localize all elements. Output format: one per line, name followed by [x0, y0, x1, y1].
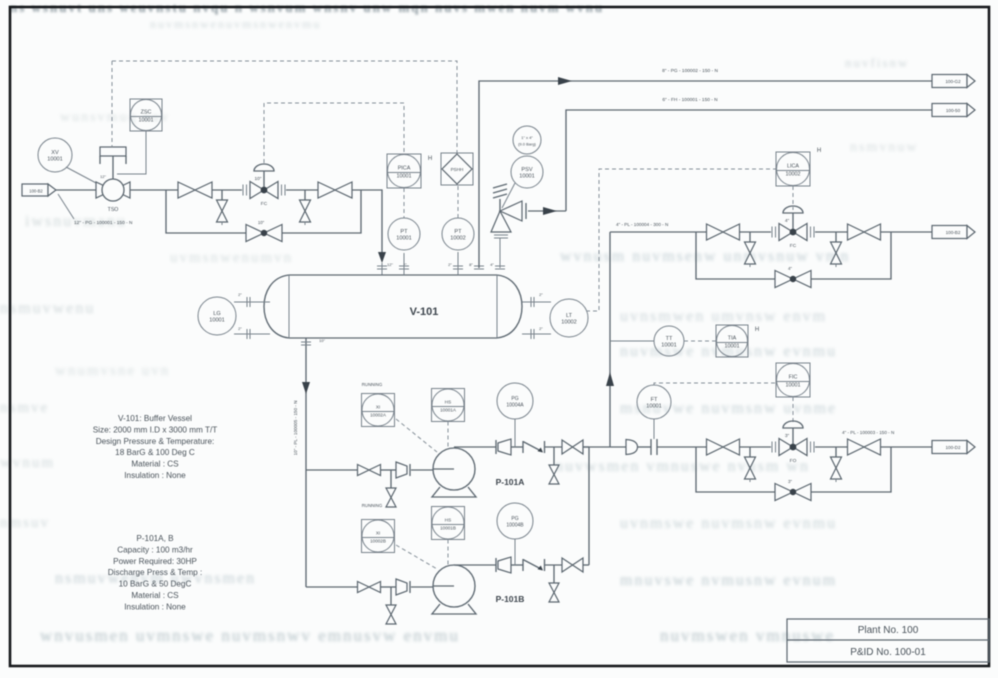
arrow PSV outlet: [543, 207, 557, 215]
svg-text:LT: LT: [566, 313, 573, 319]
svg-text:Power Required: 30HP: Power Required: 30HP: [113, 557, 197, 566]
wire 10" suction header: [305, 352, 307, 587]
svg-text:FIC: FIC: [789, 375, 798, 381]
nozzle LG lower 2": [234, 326, 270, 339]
svg-text:10001: 10001: [397, 174, 412, 180]
svg-text:Insulation : None: Insulation : None: [124, 471, 186, 480]
wire TT tap: [610, 340, 654, 342]
svg-text:10001A: 10001A: [440, 408, 457, 413]
valve gate LV upstream: [707, 224, 740, 240]
svg-text:10 BarG & 50 DegC: 10 BarG & 50 DegC: [119, 580, 192, 589]
valve gate FV upstream: [707, 439, 740, 455]
control valve FV 3" FO: [772, 421, 814, 464]
wire dashed FT-FIC: [654, 383, 776, 385]
svg-text:V-101: V-101: [410, 306, 439, 318]
svg-text:100-G2: 100-G2: [945, 79, 961, 84]
svg-text:10002B: 10002B: [370, 539, 386, 544]
control valve LV 4" FC: [772, 206, 814, 249]
instrument TIA 10001: [716, 325, 748, 357]
flow element FE orifice flanges: [651, 419, 657, 455]
svg-text:FO: FO: [790, 458, 797, 464]
wire pump B suction line: [306, 586, 433, 588]
svg-text:RUNNING: RUNNING: [362, 503, 383, 508]
svg-text:2": 2": [539, 326, 543, 331]
svg-text:4" - PL - 100003 - 150 - N: 4" - PL - 100003 - 150 - N: [842, 430, 894, 435]
svg-text:10001: 10001: [661, 343, 677, 349]
instrument LICA 10002: [776, 152, 810, 186]
wire pump B discharge: [454, 564, 589, 566]
svg-text:8" - PG - 100002 - 150 - N: 8" - PG - 100002 - 150 - N: [662, 68, 718, 74]
svg-text:PG: PG: [511, 516, 518, 522]
svg-text:PG: PG: [511, 396, 518, 402]
drain valve D1: [217, 190, 228, 225]
svg-text:FC: FC: [790, 243, 797, 249]
wire dashed XI-B to pump: [396, 545, 437, 569]
reducer pump A discharge: [496, 439, 511, 455]
nozzle LT lower 2": [522, 326, 551, 339]
instrument bubble PG 10004A: [497, 383, 533, 419]
check valve pump A: [523, 441, 545, 453]
svg-text:100-B2: 100-B2: [29, 189, 43, 194]
svg-text:H: H: [428, 156, 432, 162]
svg-text:TT: TT: [666, 336, 673, 342]
valve XV-10001 ball valve TSO: [96, 174, 130, 213]
nozzle N4 vapour 8": [469, 262, 484, 269]
label H alarm TIA: [755, 327, 759, 333]
node flag 100-B2 outlet: [932, 226, 975, 239]
node flag 100-50: [932, 104, 975, 117]
svg-text:Material : CS: Material : CS: [131, 591, 179, 600]
svg-text:10004A: 10004A: [506, 403, 524, 409]
svg-text:PICA: PICA: [398, 166, 411, 172]
drain pump A discharge: [549, 447, 559, 484]
wire PG-A tap: [514, 419, 516, 447]
valve gate pump A suction: [358, 465, 381, 476]
wire dashed HS-B to pump: [447, 540, 449, 566]
svg-text:3": 3": [788, 479, 792, 484]
valve gate V1 12" line: [178, 182, 212, 198]
wire dashed solenoid signal to actuator: [111, 61, 113, 147]
label RUNNING A: [362, 382, 383, 387]
valve gate pump B discharge: [562, 558, 583, 572]
svg-text:10001: 10001: [646, 404, 662, 410]
drain pump B suction: [386, 587, 396, 624]
wire pump B riser to manifold: [588, 447, 590, 565]
svg-text:4": 4": [490, 262, 494, 267]
reducer pump B discharge: [496, 557, 511, 573]
svg-text:Insulation : None: Insulation : None: [124, 602, 186, 611]
wire main line segment 1: [130, 189, 178, 191]
reducer pump B suction: [396, 579, 410, 595]
note V-101 data block: [93, 414, 218, 480]
arrow up on riser: [606, 372, 614, 386]
wire upper manifold segments: [610, 231, 932, 233]
svg-text:LG: LG: [213, 311, 220, 317]
svg-text:TSO: TSO: [108, 207, 119, 213]
svg-text:PSV: PSV: [521, 167, 532, 173]
svg-text:FC: FC: [261, 201, 268, 207]
leader PSV bubble to valve: [502, 183, 515, 208]
wire riser pump header to LV line: [609, 232, 611, 447]
wire inlet line to ball valve: [56, 189, 96, 191]
instrument ZSC 10001: [130, 99, 162, 131]
svg-text:12": 12": [387, 262, 393, 267]
svg-text:10001: 10001: [47, 157, 63, 163]
instrument bubble PSV size tag: [513, 126, 541, 154]
instrument PSHH 10001 switch: [441, 153, 473, 185]
svg-text:RUNNING: RUNNING: [362, 382, 383, 387]
svg-text:ZSC: ZSC: [141, 110, 152, 116]
drain valve upper-1: [745, 232, 756, 267]
svg-text:10001: 10001: [786, 383, 801, 389]
instrument bubble LT 10002: [550, 299, 588, 337]
svg-text:XI: XI: [376, 531, 380, 536]
wire dashed PICA to valve loop: [264, 103, 404, 163]
svg-text:10002: 10002: [450, 236, 466, 242]
svg-text:100-D2: 100-D2: [945, 445, 961, 450]
wire dashed XI-A to pump: [396, 419, 437, 452]
wire dashed TT-TIA: [684, 340, 716, 342]
svg-text:Discharge Press & Temp :: Discharge Press & Temp :: [108, 568, 203, 577]
svg-text:2": 2": [238, 292, 242, 297]
label H alarm LICA: [817, 148, 821, 154]
wire lower manifold segments: [583, 446, 932, 448]
svg-text:4" - PL - 100004 - 300 - N: 4" - PL - 100004 - 300 - N: [616, 222, 668, 227]
svg-text:4": 4": [785, 218, 790, 224]
svg-text:10001B: 10001B: [440, 526, 456, 531]
node flag 100-G2: [932, 75, 975, 88]
valve globe lower bypass 3": [775, 479, 811, 501]
wire bypass loop 10 inch: [166, 190, 361, 233]
nozzle flange 12 inch inlet: [377, 262, 407, 275]
check valve pump B: [523, 559, 545, 571]
valve globe upper bypass 4": [775, 266, 811, 288]
label 8"-PG-100002-150-N: [662, 68, 718, 74]
label P-101A: [496, 477, 525, 487]
label RUNNING B: [362, 503, 383, 508]
svg-text:P-101B: P-101B: [496, 594, 525, 604]
svg-text:LICA: LICA: [787, 164, 799, 170]
svg-text:Capacity : 100 m3/hr: Capacity : 100 m3/hr: [117, 545, 193, 554]
svg-text:10001: 10001: [209, 318, 225, 324]
label P-101B: [496, 594, 525, 604]
svg-text:H: H: [755, 327, 759, 333]
instrument switch HS 10001B: [432, 507, 465, 540]
leader XV to valve: [66, 167, 98, 184]
svg-text:XI: XI: [376, 405, 380, 410]
wire dashed interlock loop XV-PSHH: [112, 61, 457, 153]
svg-text:10001: 10001: [139, 118, 154, 124]
label V-101: [410, 306, 439, 318]
svg-text:Design Pressure & Temperature:: Design Pressure & Temperature:: [96, 437, 215, 446]
valve gate LV downstream: [848, 224, 881, 240]
svg-text:P-101A, B: P-101A, B: [136, 534, 174, 543]
svg-text:PT: PT: [400, 229, 408, 235]
svg-text:1" x 4": 1" x 4": [521, 135, 533, 140]
svg-text:10001: 10001: [396, 236, 412, 242]
wire ZSC connection: [117, 131, 146, 174]
vessel V-101 shell: [264, 275, 522, 338]
wire segment: [286, 189, 318, 191]
svg-text:PSHH: PSHH: [451, 167, 464, 172]
label 6"-FH-100001-150-N: [662, 97, 718, 103]
svg-text:(9.0 Barg): (9.0 Barg): [518, 142, 536, 147]
note P-101A/B data block: [108, 534, 203, 611]
instrument bubble XV 10001: [38, 138, 72, 172]
svg-text:10": 10": [254, 176, 261, 182]
valve globe bypass 10": [246, 220, 282, 242]
svg-text:10001: 10001: [519, 174, 535, 180]
label line 12"-PG-100001-150-N: [58, 194, 133, 226]
svg-text:10001: 10001: [725, 344, 740, 350]
instrument bubble TT 10001: [654, 326, 684, 356]
svg-text:HS: HS: [445, 400, 451, 405]
drain pump B discharge: [549, 565, 559, 602]
valve gate FV downstream: [848, 439, 881, 455]
wire dashed PT10002-PSHH: [457, 186, 459, 218]
svg-text:12" - PG - 100001 - 150 - N: 12" - PG - 100001 - 150 - N: [74, 220, 133, 226]
nozzle N2 PT-10001 2": [399, 253, 409, 275]
svg-text:100-B2: 100-B2: [946, 230, 961, 235]
drain valve upper-2: [831, 232, 842, 267]
pump P-101B: [432, 565, 476, 614]
svg-text:10004B: 10004B: [506, 523, 524, 529]
svg-text:2": 2": [238, 326, 242, 331]
svg-text:10" - PL - 100005 - 150 - N: 10" - PL - 100005 - 150 - N: [293, 401, 298, 456]
nozzle bottom outlet 10": [301, 338, 326, 352]
node inlet flag 100-B2: [22, 184, 56, 196]
instrument bubble FT 10001: [637, 385, 671, 419]
label 4"-PL-100003-150-N: [842, 430, 894, 435]
wire dashed PT10001-PICA: [403, 188, 405, 218]
svg-text:8": 8": [469, 262, 473, 267]
instrument bubble PT 10002: [442, 218, 474, 250]
svg-text:10002A: 10002A: [370, 413, 387, 418]
svg-text:Plant No. 100: Plant No. 100: [858, 625, 919, 636]
wire dashed FIC to FV: [792, 397, 794, 424]
arrow flow into vessel: [378, 252, 386, 263]
valve gate pump B suction: [358, 582, 381, 593]
svg-text:P&ID No. 100-01: P&ID No. 100-01: [850, 647, 926, 658]
instrument light XI 10002A: [362, 394, 395, 427]
drain valve lower-2: [831, 447, 842, 482]
instrument PICA 10001: [387, 154, 421, 188]
wire 8" PG-100002 line: [479, 81, 932, 268]
reducer pump A suction: [396, 462, 410, 478]
svg-text:PT: PT: [454, 229, 462, 235]
wire dashed HS-A to pump: [447, 422, 449, 449]
svg-text:H: H: [817, 148, 821, 154]
title block: [787, 619, 989, 662]
svg-text:6" - FH - 100001 - 150 - N: 6" - FH - 100001 - 150 - N: [662, 97, 718, 103]
svg-text:18 BarG & 100 Deg C: 18 BarG & 100 Deg C: [115, 448, 195, 457]
svg-text:XV: XV: [51, 150, 59, 156]
svg-text:FT: FT: [651, 397, 658, 403]
instrument FIC 10001: [776, 363, 810, 397]
wire dashed LT to LICA: [586, 169, 776, 311]
wire PG-B tap: [514, 539, 516, 565]
instrument bubble PT 10001: [388, 218, 420, 250]
actuator piston on XV valve: [100, 147, 126, 179]
pump P-101A: [432, 448, 476, 497]
svg-text:Size: 2000 mm I.D x 3000 mm T/: Size: 2000 mm I.D x 3000 mm T/T: [93, 425, 218, 434]
node flag 100-D2 outlet: [932, 441, 975, 454]
svg-text:V-101: Buffer Vessel: V-101: Buffer Vessel: [118, 414, 192, 423]
svg-text:12": 12": [100, 174, 106, 179]
wire lower bypass: [696, 447, 891, 492]
label 4"-PL-100004-300-N: [616, 222, 668, 227]
instrument bubble PSV 10001: [511, 156, 543, 188]
svg-text:100-50: 100-50: [946, 108, 961, 113]
svg-text:4": 4": [788, 266, 792, 271]
nozzle N5 PSV 4": [490, 262, 505, 269]
svg-text:2": 2": [448, 262, 452, 267]
arrow on 8" line: [558, 77, 572, 85]
label H alarm PICA: [428, 156, 432, 162]
drain pump A suction: [386, 470, 396, 507]
drain valve lower-1: [745, 447, 756, 482]
svg-text:10": 10": [319, 338, 325, 343]
valve gate V2 12" line: [318, 182, 352, 198]
svg-text:TIA: TIA: [728, 336, 737, 342]
wire segment to vessel inlet elbow: [352, 190, 382, 252]
nozzle N3 PT-10002 2": [448, 252, 463, 275]
nozzle LG upper 2": [234, 292, 270, 307]
drain valve D2: [300, 190, 311, 225]
wire pump A suction line: [306, 469, 433, 471]
nozzle LT upper 2": [522, 292, 551, 307]
svg-text:Material : CS: Material : CS: [131, 460, 179, 469]
svg-text:P-101A: P-101A: [496, 477, 525, 487]
instrument light XI 10002B: [362, 520, 395, 553]
instrument bubble PG 10004B: [497, 503, 533, 539]
svg-text:10002: 10002: [786, 172, 801, 178]
wire PSV discharge to flare: [528, 110, 932, 211]
wire pump A discharge: [454, 446, 589, 448]
valve PSV-10001 relief: [491, 184, 526, 268]
svg-text:HS: HS: [445, 518, 451, 523]
reducer before FE: [626, 440, 638, 455]
svg-text:10002: 10002: [561, 320, 577, 326]
arrow down suction header: [302, 382, 310, 394]
svg-text:3": 3": [785, 433, 790, 439]
label 10"-PL-100005-150-N vertical: [293, 401, 298, 456]
instrument bubble LG 10001: [198, 297, 236, 335]
control valve PV 10" FC: [243, 164, 285, 207]
svg-text:10": 10": [258, 220, 265, 225]
valve gate pump A discharge: [562, 440, 583, 454]
wire upper bypass: [696, 232, 891, 279]
wire segment: [212, 189, 242, 191]
wire dashed LICA to LV: [792, 186, 794, 210]
instrument switch HS 10001A: [432, 389, 465, 422]
svg-text:2": 2": [539, 292, 543, 297]
